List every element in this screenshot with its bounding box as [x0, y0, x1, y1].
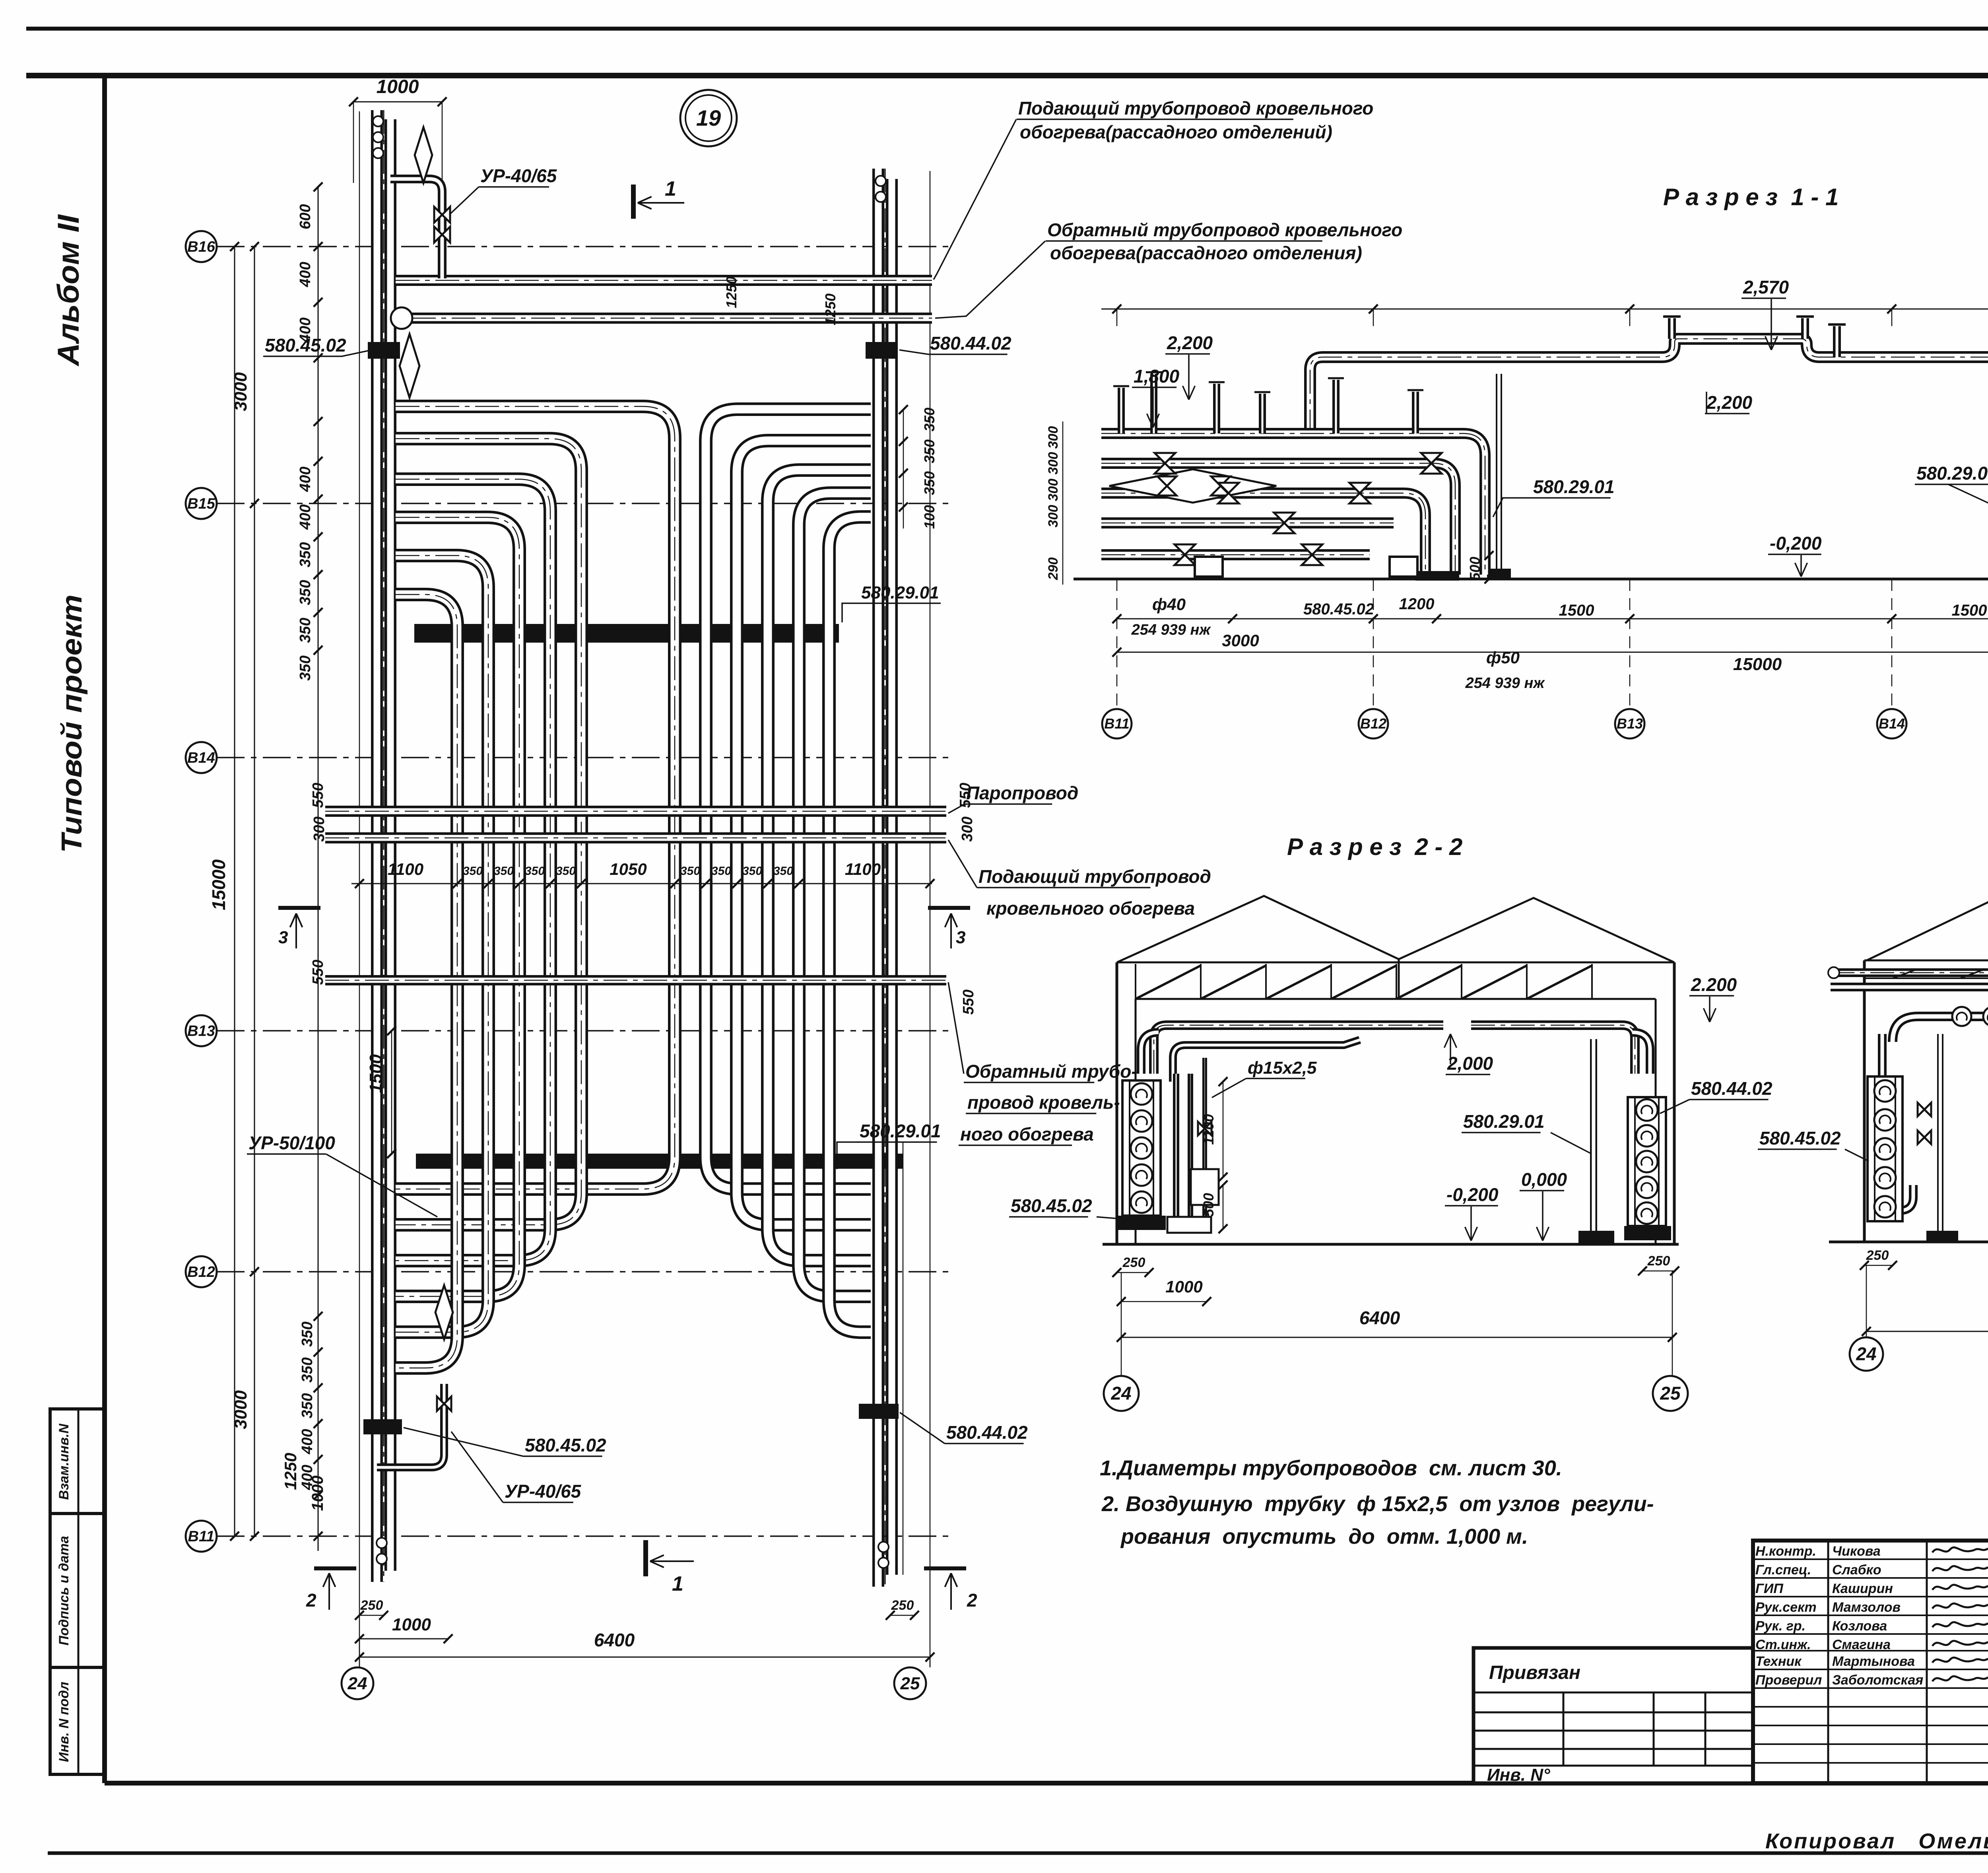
svg-text:Подающий трубопровод: Подающий трубопровод [978, 866, 1211, 887]
svg-text:2,570: 2,570 [1743, 277, 1789, 297]
svg-text:Инв. N подл: Инв. N подл [56, 1682, 72, 1762]
svg-text:В15: В15 [187, 495, 215, 512]
svg-text:350: 350 [525, 865, 545, 878]
svg-text:350: 350 [299, 1321, 316, 1346]
svg-text:350: 350 [297, 618, 314, 643]
svg-text:Паропровод: Паропровод [966, 783, 1078, 803]
svg-text:400: 400 [297, 504, 314, 530]
svg-text:В16: В16 [187, 239, 215, 255]
svg-text:350: 350 [556, 865, 576, 878]
svg-text:550: 550 [960, 989, 977, 1014]
svg-text:1100: 1100 [1200, 1114, 1217, 1144]
svg-text:-0,200: -0,200 [1446, 1184, 1499, 1205]
svg-text:В11: В11 [1104, 715, 1129, 732]
svg-text:1000: 1000 [309, 1476, 326, 1511]
svg-text:1250: 1250 [281, 1453, 300, 1490]
svg-text:1,800: 1,800 [1134, 366, 1180, 387]
svg-text:Взам.инв.N: Взам.инв.N [56, 1423, 72, 1500]
svg-text:500: 500 [1200, 1193, 1217, 1217]
svg-text:254 939 нж: 254 939 нж [1465, 675, 1545, 692]
svg-text:Р а з р е з 1 - 1: Р а з р е з 1 - 1 [1663, 184, 1839, 210]
svg-text:550: 550 [310, 783, 326, 808]
svg-text:25: 25 [900, 1674, 920, 1693]
svg-text:0,000: 0,000 [1521, 1169, 1567, 1190]
svg-text:Слабко: Слабко [1832, 1562, 1881, 1578]
svg-text:300: 300 [959, 816, 976, 841]
svg-text:1250: 1250 [822, 293, 839, 325]
svg-text:350: 350 [299, 1357, 316, 1382]
svg-text:1250: 1250 [723, 276, 740, 308]
svg-text:провод кровель-: провод кровель- [967, 1092, 1120, 1113]
svg-text:1: 1 [672, 1572, 683, 1595]
svg-text:580.44.02: 580.44.02 [946, 1422, 1028, 1443]
svg-text:24: 24 [348, 1674, 367, 1693]
svg-text:ф40: ф40 [1152, 595, 1186, 614]
svg-text:Ст.инж.: Ст.инж. [1755, 1637, 1811, 1652]
svg-text:Обратный трубо-: Обратный трубо- [965, 1061, 1138, 1082]
svg-text:580.44.02: 580.44.02 [930, 333, 1011, 354]
svg-text:Привязан: Привязан [1489, 1662, 1580, 1683]
svg-text:ф15х2,5: ф15х2,5 [1248, 1058, 1317, 1078]
svg-text:580.29.01: 580.29.01 [860, 1121, 941, 1141]
svg-text:3000: 3000 [1222, 631, 1259, 650]
svg-text:580.29.01: 580.29.01 [1463, 1111, 1545, 1132]
svg-text:24: 24 [1110, 1383, 1131, 1404]
svg-text:В13: В13 [1617, 715, 1643, 732]
svg-text:Гл.спец.: Гл.спец. [1755, 1562, 1811, 1578]
svg-text:1100: 1100 [845, 860, 881, 878]
svg-text:600: 600 [297, 204, 314, 229]
svg-text:350: 350 [921, 439, 938, 463]
svg-text:3: 3 [956, 928, 965, 947]
svg-text:580.45.02: 580.45.02 [1011, 1195, 1092, 1216]
svg-text:1100: 1100 [388, 860, 423, 878]
svg-text:Чикова: Чикова [1832, 1544, 1881, 1559]
svg-text:580.44.02: 580.44.02 [1691, 1078, 1773, 1099]
svg-text:2: 2 [306, 1590, 316, 1611]
svg-text:3000: 3000 [231, 372, 250, 411]
svg-text:100: 100 [921, 505, 938, 529]
svg-text:1000: 1000 [1165, 1277, 1202, 1296]
svg-text:254 939 нж: 254 939 нж [1131, 622, 1211, 638]
svg-text:В14: В14 [187, 750, 215, 766]
svg-text:обогрева(рассадного отделения): обогрева(рассадного отделения) [1050, 243, 1362, 263]
svg-text:В12: В12 [1360, 715, 1386, 732]
svg-text:Обратный трубопровод кровельно: Обратный трубопровод кровельного [1047, 220, 1402, 240]
svg-text:350: 350 [680, 865, 700, 878]
svg-text:В14: В14 [1879, 715, 1905, 732]
svg-text:300: 300 [1046, 505, 1061, 528]
svg-text:Мартынова: Мартынова [1832, 1654, 1915, 1669]
svg-text:Н.контр.: Н.контр. [1755, 1544, 1816, 1559]
svg-text:2,200: 2,200 [1167, 332, 1213, 353]
svg-text:550: 550 [310, 960, 326, 985]
svg-text:350: 350 [711, 865, 731, 878]
svg-text:1.Диаметры трубопроводов см.: 1.Диаметры трубопроводов см. лист 30. [1100, 1456, 1562, 1480]
svg-text:ГИП: ГИП [1755, 1581, 1784, 1596]
svg-text:15000: 15000 [208, 859, 229, 910]
svg-text:6400: 6400 [594, 1630, 635, 1650]
svg-text:350: 350 [463, 865, 483, 878]
svg-text:300: 300 [1046, 426, 1061, 449]
svg-text:В11: В11 [188, 1528, 215, 1545]
svg-text:350: 350 [297, 655, 314, 680]
svg-text:350: 350 [773, 865, 793, 878]
svg-text:3000: 3000 [231, 1390, 250, 1429]
svg-text:1200: 1200 [1399, 595, 1435, 613]
svg-text:рования опустить до отм. 1,: рования опустить до отм. 1,000 м. [1120, 1525, 1528, 1549]
svg-text:Подпись и дата: Подпись и дата [56, 1536, 72, 1646]
svg-text:1000: 1000 [377, 76, 419, 97]
svg-text:2,200: 2,200 [1706, 392, 1753, 413]
svg-text:Каширин: Каширин [1832, 1581, 1893, 1596]
svg-text:250: 250 [1122, 1255, 1145, 1270]
svg-text:350: 350 [297, 580, 314, 605]
svg-text:-0,200: -0,200 [1770, 533, 1822, 554]
svg-text:15000: 15000 [1733, 655, 1782, 674]
svg-text:2.200: 2.200 [1691, 974, 1737, 995]
svg-text:1: 1 [665, 177, 676, 200]
svg-text:В12: В12 [187, 1264, 215, 1280]
svg-text:Заболотская: Заболотская [1832, 1673, 1923, 1688]
svg-text:УР-50/100: УР-50/100 [248, 1133, 335, 1153]
svg-text:Подающий трубопровод кровельно: Подающий трубопровод кровельного [1018, 98, 1373, 119]
svg-text:2. Воздушную трубку ф 15х2,5: 2. Воздушную трубку ф 15х2,5 от узлов ре… [1101, 1492, 1654, 1516]
svg-text:Козлова: Козлова [1832, 1618, 1887, 1634]
svg-text:Проверил: Проверил [1755, 1673, 1822, 1688]
svg-text:350: 350 [921, 471, 938, 495]
svg-text:3: 3 [278, 928, 288, 947]
svg-text:300: 300 [1046, 479, 1061, 501]
svg-text:Рук. гр.: Рук. гр. [1755, 1618, 1806, 1634]
svg-text:Альбом II: Альбом II [52, 214, 85, 367]
svg-text:580.45.02: 580.45.02 [1303, 600, 1374, 618]
svg-text:580.45.02: 580.45.02 [525, 1435, 606, 1455]
svg-text:1500: 1500 [1952, 602, 1987, 619]
svg-text:кровельного обогрева: кровельного обогрева [986, 898, 1195, 919]
svg-text:Мамзолов: Мамзолов [1832, 1600, 1901, 1615]
svg-text:Техник: Техник [1755, 1654, 1802, 1669]
svg-text:580.29.01: 580.29.01 [1533, 476, 1615, 497]
svg-text:Рук.сект: Рук.сект [1755, 1600, 1817, 1615]
svg-text:580.29.01: 580.29.01 [1916, 463, 1988, 484]
svg-text:Инв. N°: Инв. N° [1487, 1765, 1550, 1785]
svg-text:350: 350 [494, 865, 514, 878]
svg-text:В13: В13 [187, 1023, 215, 1039]
svg-text:Р а з р е з 2 - 2: Р а з р е з 2 - 2 [1287, 834, 1462, 860]
svg-text:1050: 1050 [610, 860, 646, 878]
svg-text:400: 400 [297, 262, 314, 287]
svg-text:УР-40/65: УР-40/65 [480, 165, 557, 186]
svg-text:1500: 1500 [366, 1054, 386, 1093]
svg-text:Копировал Омельченко: Копировал Омельченко [1765, 1829, 1988, 1853]
svg-text:Смагина: Смагина [1832, 1637, 1891, 1652]
svg-text:19: 19 [696, 105, 721, 130]
svg-text:350: 350 [921, 408, 938, 431]
svg-text:250: 250 [1647, 1253, 1670, 1269]
svg-text:УР-40/65: УР-40/65 [505, 1481, 582, 1502]
svg-text:580.45.02: 580.45.02 [265, 335, 346, 356]
svg-text:2,000: 2,000 [1447, 1053, 1493, 1074]
svg-text:350: 350 [299, 1393, 316, 1418]
svg-text:300: 300 [311, 816, 328, 841]
svg-text:1000: 1000 [392, 1615, 431, 1634]
svg-text:обогрева(рассадного отделений): обогрева(рассадного отделений) [1020, 122, 1332, 142]
svg-text:ф50: ф50 [1486, 648, 1520, 667]
svg-text:250: 250 [1866, 1248, 1889, 1263]
svg-text:400: 400 [299, 1429, 316, 1454]
svg-text:350: 350 [297, 542, 314, 567]
svg-text:350: 350 [742, 865, 762, 878]
svg-text:580.29.01: 580.29.01 [861, 583, 939, 602]
svg-text:580.45.02: 580.45.02 [1759, 1128, 1841, 1148]
svg-text:400: 400 [297, 466, 314, 492]
svg-text:ного обогрева: ного обогрева [960, 1124, 1094, 1144]
svg-text:24: 24 [1856, 1344, 1876, 1364]
svg-text:1500: 1500 [1559, 602, 1594, 619]
svg-text:300: 300 [1046, 452, 1061, 475]
svg-text:290: 290 [1046, 558, 1061, 581]
svg-text:6400: 6400 [1359, 1308, 1400, 1328]
svg-text:500: 500 [1467, 557, 1483, 581]
svg-text:2: 2 [967, 1590, 977, 1611]
svg-text:25: 25 [1660, 1383, 1681, 1404]
svg-text:Типовой проект: Типовой проект [56, 595, 88, 853]
